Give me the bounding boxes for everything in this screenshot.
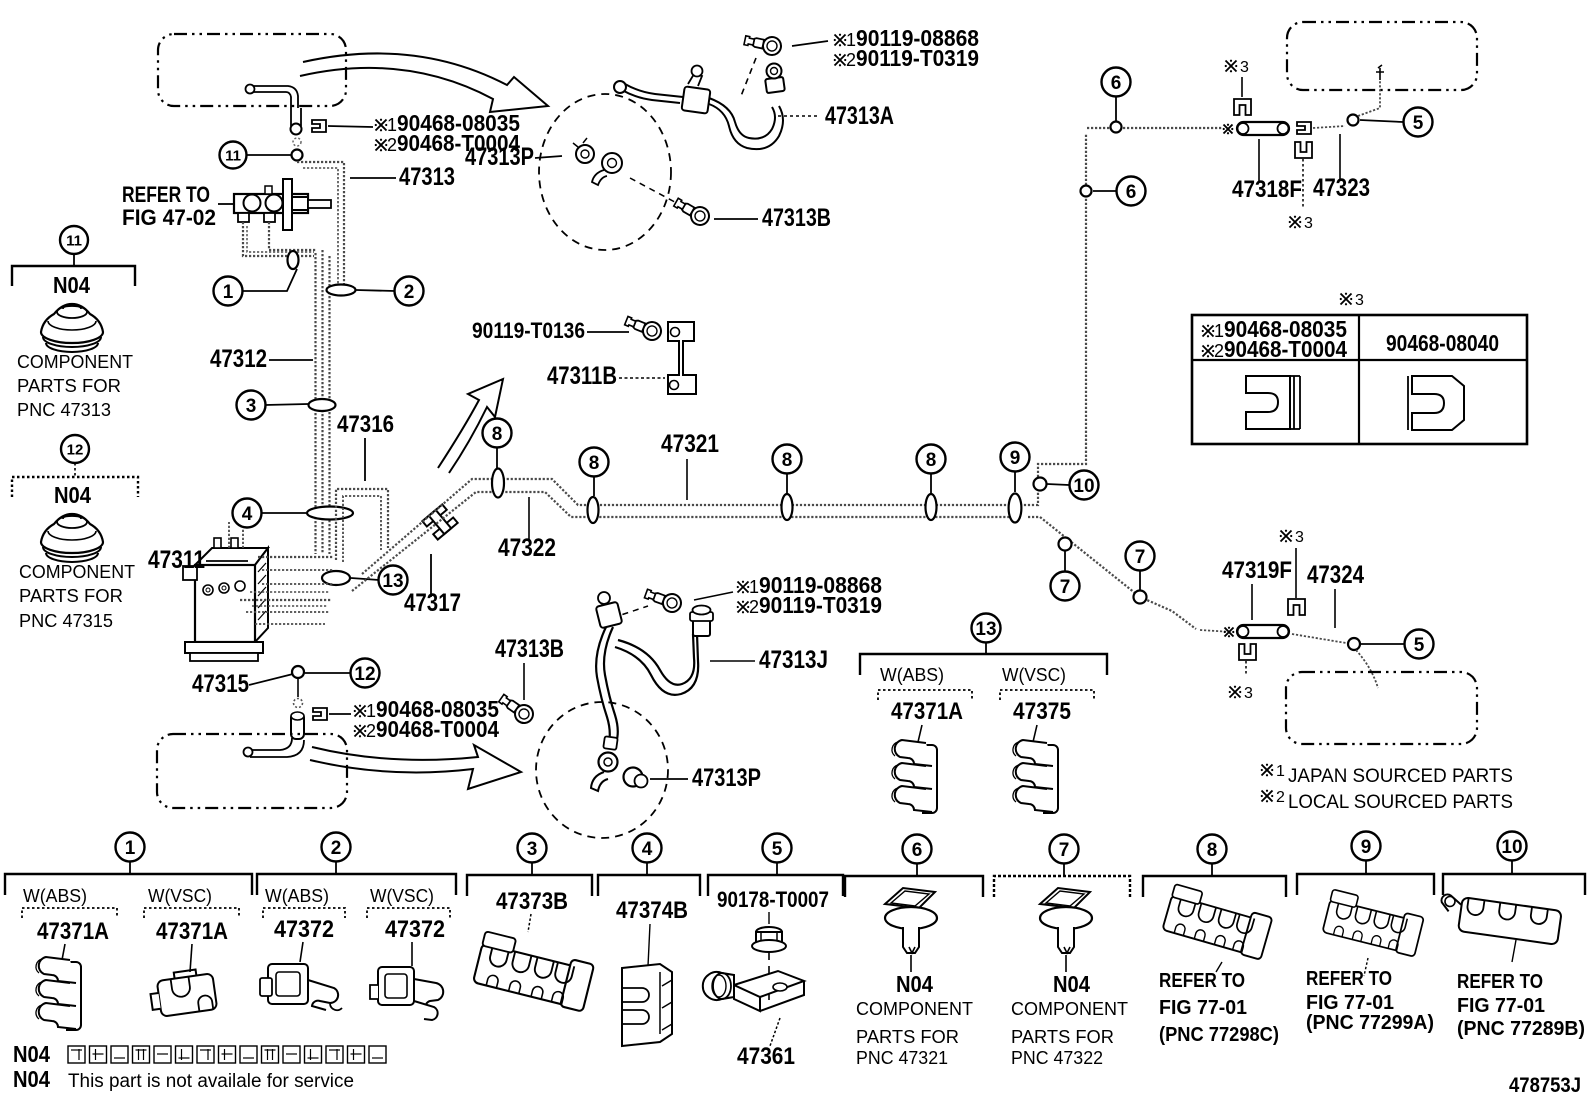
- svg-text:3: 3: [1240, 59, 1249, 76]
- svg-text:1: 1: [125, 838, 136, 859]
- svg-text:90468-T0004: 90468-T0004: [376, 716, 499, 742]
- svg-text:47318F: 47318F: [1232, 176, 1302, 203]
- svg-text:47313B: 47313B: [762, 204, 831, 232]
- svg-text:8: 8: [589, 453, 600, 474]
- svg-text:47372: 47372: [385, 916, 445, 943]
- svg-text:REFER TO: REFER TO: [122, 182, 210, 207]
- svg-text:W(ABS): W(ABS): [265, 886, 329, 906]
- svg-text:47313: 47313: [399, 163, 455, 191]
- svg-text:PARTS FOR: PARTS FOR: [1011, 1027, 1114, 1047]
- svg-text:9: 9: [1010, 448, 1021, 469]
- svg-text:COMPONENT: COMPONENT: [19, 562, 135, 582]
- svg-text:5: 5: [1413, 113, 1424, 134]
- svg-text:N04: N04: [53, 272, 90, 298]
- svg-text:COMPONENT: COMPONENT: [17, 352, 133, 372]
- svg-text:3: 3: [527, 839, 538, 860]
- svg-text:8: 8: [926, 450, 937, 471]
- svg-text:47313P: 47313P: [692, 764, 761, 792]
- svg-text:478753J: 478753J: [1509, 1074, 1581, 1097]
- svg-text:5: 5: [1414, 635, 1425, 656]
- svg-text:7: 7: [1060, 577, 1071, 598]
- svg-text:N04: N04: [896, 971, 933, 997]
- svg-text:W(VSC): W(VSC): [1002, 665, 1066, 685]
- svg-text:47375: 47375: [1013, 698, 1071, 725]
- svg-text:47371A: 47371A: [37, 918, 109, 945]
- svg-text:47373B: 47373B: [496, 888, 568, 915]
- svg-text:This part is not availale for: This part is not availale for service: [68, 1071, 354, 1092]
- svg-text:1: 1: [1214, 321, 1224, 341]
- svg-text:47315: 47315: [192, 670, 249, 698]
- svg-text:47372: 47372: [274, 916, 334, 943]
- svg-text:90119-T0136: 90119-T0136: [472, 318, 585, 343]
- svg-text:FIG 77-01: FIG 77-01: [1159, 997, 1247, 1019]
- svg-text:47317: 47317: [404, 589, 461, 617]
- svg-text:1: 1: [366, 701, 376, 721]
- svg-text:4: 4: [642, 839, 653, 860]
- svg-text:FIG 77-01: FIG 77-01: [1457, 995, 1545, 1017]
- svg-text:12: 12: [354, 664, 375, 685]
- svg-text:7: 7: [1135, 547, 1146, 568]
- svg-text:47371A: 47371A: [156, 918, 228, 945]
- svg-text:47316: 47316: [337, 411, 394, 438]
- svg-text:1: 1: [223, 282, 234, 303]
- svg-text:7: 7: [1059, 840, 1070, 861]
- svg-text:47322: 47322: [498, 534, 556, 562]
- svg-text:47371A: 47371A: [891, 698, 963, 725]
- svg-text:11: 11: [66, 232, 82, 249]
- svg-text:PARTS FOR: PARTS FOR: [856, 1027, 959, 1047]
- svg-text:47313B: 47313B: [495, 635, 564, 663]
- svg-text:10: 10: [1501, 837, 1522, 858]
- svg-text:3: 3: [1295, 529, 1304, 546]
- svg-text:8: 8: [1207, 840, 1218, 861]
- svg-text:10: 10: [1073, 476, 1094, 497]
- svg-text:90468-T0004: 90468-T0004: [1224, 336, 1347, 362]
- svg-text:1: 1: [846, 30, 856, 50]
- svg-text:W(ABS): W(ABS): [23, 886, 87, 906]
- svg-text:47323: 47323: [1313, 174, 1370, 202]
- svg-text:W(ABS): W(ABS): [880, 665, 944, 685]
- svg-text:PNC 47322: PNC 47322: [1011, 1048, 1103, 1068]
- svg-text:47361: 47361: [737, 1043, 795, 1070]
- svg-text:8: 8: [782, 450, 793, 471]
- svg-text:2: 2: [1214, 341, 1224, 361]
- svg-text:JAPAN SOURCED PARTS: JAPAN SOURCED PARTS: [1288, 766, 1513, 787]
- svg-text:6: 6: [912, 840, 923, 861]
- svg-text:LOCAL SOURCED PARTS: LOCAL SOURCED PARTS: [1288, 792, 1513, 813]
- svg-text:47313J: 47313J: [759, 646, 828, 674]
- svg-text:FIG 47-02: FIG 47-02: [122, 205, 216, 230]
- svg-text:3: 3: [1244, 685, 1253, 702]
- svg-text:2: 2: [366, 721, 376, 741]
- svg-text:6: 6: [1111, 73, 1122, 94]
- svg-text:W(VSC): W(VSC): [148, 886, 212, 906]
- svg-text:47313A: 47313A: [825, 102, 894, 130]
- svg-text:PARTS FOR: PARTS FOR: [19, 586, 123, 606]
- svg-text:3: 3: [246, 396, 257, 417]
- svg-text:47313P: 47313P: [465, 143, 534, 171]
- svg-text:90119-T0319: 90119-T0319: [759, 592, 882, 618]
- svg-text:3: 3: [1355, 292, 1364, 309]
- svg-text:1: 1: [387, 115, 397, 135]
- svg-text:8: 8: [492, 424, 503, 445]
- svg-text:COMPONENT: COMPONENT: [1011, 999, 1128, 1019]
- svg-text:REFER TO: REFER TO: [1306, 968, 1392, 990]
- svg-text:47319F: 47319F: [1222, 557, 1292, 584]
- svg-text:47374B: 47374B: [616, 897, 688, 924]
- svg-text:(PNC 77289B): (PNC 77289B): [1457, 1018, 1585, 1040]
- svg-text:47324: 47324: [1307, 561, 1364, 589]
- svg-text:47312: 47312: [210, 345, 267, 373]
- svg-text:47321: 47321: [661, 430, 719, 458]
- svg-text:N04: N04: [1053, 971, 1090, 997]
- svg-text:47311: 47311: [148, 546, 205, 574]
- svg-text:4: 4: [242, 504, 253, 525]
- svg-text:PARTS FOR: PARTS FOR: [17, 376, 121, 396]
- svg-text:12: 12: [67, 441, 84, 458]
- svg-text:2: 2: [1276, 789, 1285, 806]
- svg-text:N04: N04: [13, 1066, 50, 1092]
- svg-text:REFER TO: REFER TO: [1457, 971, 1543, 993]
- svg-text:9: 9: [1361, 837, 1372, 858]
- svg-text:90119-T0319: 90119-T0319: [856, 45, 979, 71]
- svg-text:COMPONENT: COMPONENT: [856, 999, 973, 1019]
- svg-text:13: 13: [975, 619, 996, 640]
- svg-text:(PNC 77299A): (PNC 77299A): [1306, 1012, 1434, 1034]
- svg-text:W(VSC): W(VSC): [370, 886, 434, 906]
- svg-text:PNC 47313: PNC 47313: [17, 400, 111, 420]
- svg-text:N04: N04: [54, 482, 91, 508]
- svg-text:3: 3: [1304, 215, 1313, 232]
- svg-text:(PNC 77298C): (PNC 77298C): [1159, 1024, 1279, 1046]
- svg-text:N04: N04: [13, 1041, 50, 1067]
- svg-text:2: 2: [749, 597, 759, 617]
- svg-text:11: 11: [225, 147, 241, 164]
- svg-text:REFER TO: REFER TO: [1159, 970, 1245, 992]
- svg-text:2: 2: [846, 50, 856, 70]
- svg-text:5: 5: [772, 839, 783, 860]
- svg-text:90178-T0007: 90178-T0007: [717, 887, 829, 912]
- svg-text:13: 13: [382, 571, 403, 592]
- svg-text:2: 2: [331, 838, 342, 859]
- svg-text:1: 1: [1276, 763, 1285, 780]
- svg-text:90468-08040: 90468-08040: [1386, 330, 1499, 356]
- svg-text:2: 2: [404, 282, 415, 303]
- svg-text:6: 6: [1126, 182, 1137, 203]
- svg-text:2: 2: [387, 135, 397, 155]
- svg-text:PNC 47315: PNC 47315: [19, 611, 113, 631]
- svg-text:PNC 47321: PNC 47321: [856, 1048, 948, 1068]
- svg-text:47311B: 47311B: [547, 362, 617, 390]
- svg-text:1: 1: [749, 577, 759, 597]
- svg-text:FIG 77-01: FIG 77-01: [1306, 992, 1394, 1014]
